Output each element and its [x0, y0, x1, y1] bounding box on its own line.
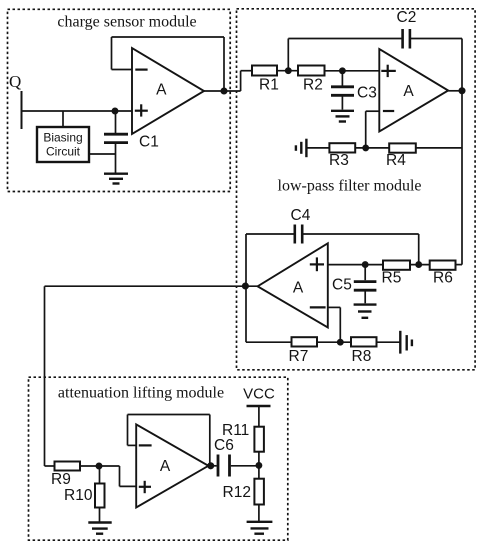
resistor R11 (vertical): [254, 427, 264, 452]
resistor R12 (vertical): [254, 479, 264, 505]
svg-text:R7: R7: [289, 348, 309, 365]
node U3 output junction: [243, 283, 248, 288]
op-amp U1 minus input wire and feedback: [223, 37, 225, 91]
svg-text:C5: C5: [332, 277, 352, 294]
node input junction: [112, 108, 117, 113]
charge sensor module dotted box: [8, 9, 231, 191]
capacitor C1: [115, 111, 117, 133]
wire R3 to R4: [355, 147, 389, 149]
node R1-R2 junction: [286, 68, 291, 73]
svg-text:C3: C3: [357, 85, 377, 102]
capacitor C2: [288, 38, 402, 40]
wire C2 riser: [287, 39, 289, 71]
op-amp U1: [132, 48, 204, 134]
resistor R8: [351, 337, 377, 346]
wire biasing output: [89, 153, 116, 155]
wire R6 to right bus: [456, 264, 463, 266]
svg-text:A: A: [293, 280, 304, 297]
wire output down to R7: [245, 286, 247, 342]
ground below C3: [331, 110, 354, 112]
svg-text:R11: R11: [222, 422, 249, 439]
node R11-R12 junction: [256, 463, 261, 468]
svg-text:R4: R4: [386, 152, 406, 169]
wire biasing tap: [62, 111, 64, 127]
VCC rail: [247, 405, 271, 407]
wire right bus vertical: [461, 39, 463, 265]
wire R8 to ground: [377, 341, 401, 343]
svg-text:R2: R2: [303, 77, 323, 94]
wire R2 to op-amp U2 plus: [325, 70, 380, 72]
ground right of R8 (rotated): [399, 331, 401, 354]
node R7-R8 junction: [338, 340, 343, 345]
resistor R6: [430, 261, 456, 270]
node C5 junction: [363, 262, 368, 267]
wire U3 minus to R7R8: [328, 306, 341, 308]
resistor R1: [252, 66, 277, 76]
wire R4 to right bus: [416, 147, 462, 149]
svg-text:R12: R12: [223, 484, 251, 501]
wire U3 output: [45, 285, 258, 287]
svg-text:R3: R3: [329, 152, 349, 169]
svg-text:VCC: VCC: [243, 385, 275, 402]
op-amp U3 plus sign: [310, 263, 324, 265]
op-amp U2 minus input wire: [365, 111, 367, 148]
capacitor C6: [212, 465, 217, 467]
wire R1 to R2: [277, 70, 298, 72]
resistor R3: [329, 143, 355, 152]
wire R11 to R12: [258, 452, 260, 479]
svg-text:A: A: [156, 82, 167, 99]
svg-text:A: A: [403, 83, 414, 100]
wire R9 to plus input: [80, 465, 120, 467]
node Q input electrode: [21, 91, 23, 129]
node R9-R10 junction: [96, 463, 101, 468]
low-pass filter module dotted box: [237, 9, 476, 370]
node U2 output junction: [459, 88, 464, 93]
wire long connection to attenuation module: [44, 286, 46, 466]
op-amp U3 minus sign: [310, 306, 326, 308]
wire R5 to R6: [410, 264, 430, 266]
resistor R4: [389, 143, 416, 152]
capacitor C5: [364, 265, 366, 281]
capacitor C3: [341, 71, 343, 86]
svg-text:C1: C1: [139, 134, 159, 151]
svg-text:R8: R8: [352, 348, 372, 365]
biasing circuit block: [37, 127, 89, 162]
wire U3 plus input: [328, 264, 383, 266]
ground below C1: [104, 172, 128, 174]
node R2-C3 junction: [340, 68, 345, 73]
svg-text:Circuit: Circuit: [46, 145, 81, 159]
resistor R2: [298, 66, 325, 76]
attenuation lifting module dotted box: [29, 377, 288, 540]
op-amp U2: [379, 49, 448, 132]
svg-text:C4: C4: [291, 207, 311, 224]
wire R7 to R8: [317, 341, 351, 343]
node R3-R4 junction: [363, 145, 368, 150]
op-amp U4 plus sign: [144, 481, 146, 493]
wire U1 output: [204, 90, 241, 92]
ground below R10: [88, 521, 111, 523]
svg-text:R9: R9: [51, 471, 71, 488]
resistor R10 (vertical): [99, 466, 101, 484]
op-amp U3 (points left): [258, 243, 328, 327]
op-amp U1 plus sign: [135, 110, 148, 112]
svg-text:attenuation lifting module: attenuation lifting module: [58, 385, 224, 402]
svg-text:Biasing: Biasing: [43, 131, 82, 145]
wire Q to op-amp U1 plus input: [22, 110, 133, 112]
svg-text:A: A: [160, 458, 171, 475]
svg-text:low-pass filter module: low-pass filter module: [278, 178, 422, 195]
svg-text:charge sensor module: charge sensor module: [57, 14, 196, 31]
wire plus input jog: [119, 466, 121, 486]
ground below C5: [354, 303, 377, 305]
op-amp U4: [136, 424, 208, 507]
svg-text:R1: R1: [259, 77, 279, 94]
resistor R9: [55, 462, 81, 471]
resistor R5: [383, 261, 410, 270]
wire C4 right riser: [418, 234, 420, 265]
svg-text:R10: R10: [64, 487, 93, 504]
svg-text:C2: C2: [397, 9, 417, 26]
svg-text:Q: Q: [9, 72, 21, 91]
svg-text:R6: R6: [433, 270, 453, 287]
node R5-R6 junction: [416, 262, 421, 267]
op-amp U4 feedback: [128, 414, 210, 416]
wire U2 output: [448, 90, 462, 92]
node U1 output junction: [221, 88, 226, 93]
resistor R7: [292, 337, 318, 346]
capacitor C4: [246, 233, 295, 235]
ground below R12: [247, 521, 273, 523]
svg-text:R5: R5: [382, 270, 402, 287]
svg-text:C6: C6: [214, 437, 234, 454]
wire C4 left riser: [245, 234, 247, 286]
ground left of R3 (rotated): [305, 139, 307, 158]
op-amp U2 plus sign: [387, 65, 389, 77]
wire ground to R3: [306, 147, 329, 149]
node U4 output junction: [208, 463, 213, 468]
